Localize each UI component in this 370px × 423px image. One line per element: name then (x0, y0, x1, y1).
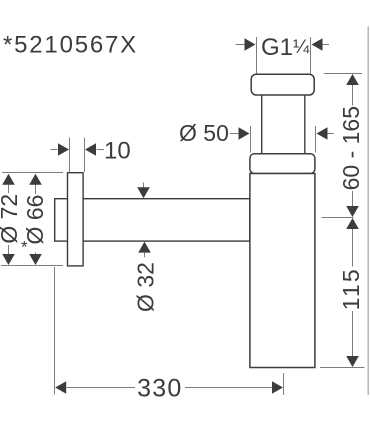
svg-text:115: 115 (338, 267, 364, 310)
svg-text:*: * (21, 238, 28, 257)
svg-text:Ø 32: Ø 32 (133, 262, 159, 312)
svg-text:330: 330 (137, 375, 182, 403)
svg-text:Ø 72: Ø 72 (0, 194, 22, 244)
svg-text:*5210567X: *5210567X (3, 32, 138, 59)
svg-text:Ø 50: Ø 50 (179, 120, 229, 146)
svg-text:G1¼: G1¼ (261, 34, 310, 61)
svg-text:10: 10 (104, 138, 131, 165)
svg-text:60 - 165: 60 - 165 (338, 106, 364, 190)
